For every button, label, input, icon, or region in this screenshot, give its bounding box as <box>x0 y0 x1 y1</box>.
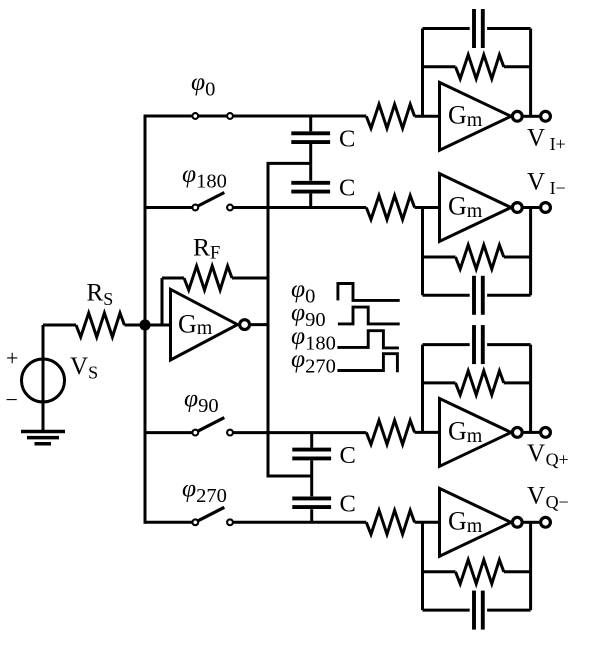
wire phi180 rail <box>145 206 366 209</box>
wire feedback res rail U5 <box>423 570 531 573</box>
wire feedback cap rail U5 <box>423 609 531 612</box>
wire feedback cap rail U4 <box>423 343 531 346</box>
bubble U5 output <box>512 517 522 527</box>
wire feedback res rail U4 <box>423 381 531 384</box>
switch phi180 <box>192 193 233 211</box>
wire central Gm output <box>251 323 268 326</box>
clock waveform phi270 <box>337 354 397 373</box>
wire feedback cap rail U2 <box>423 27 531 30</box>
wire input node to central Gm <box>145 324 171 327</box>
wire U4 output <box>524 431 540 434</box>
clock waveform phi90 <box>338 307 400 324</box>
label clock phi180 <box>291 321 336 355</box>
resistor input R5 <box>366 196 414 220</box>
label phi90 <box>184 384 219 418</box>
clock waveform phi180 <box>337 331 399 348</box>
capacitor C2 <box>291 183 330 192</box>
svg-text:C: C <box>339 125 355 152</box>
svg-text:−: − <box>6 387 18 412</box>
node input junction <box>139 319 150 330</box>
wire RF feedback left vertical <box>162 278 184 325</box>
label VQ&#8722; <box>527 483 569 513</box>
label C2 <box>339 175 355 202</box>
op-amp U2 Gm <box>440 82 512 150</box>
label C4 <box>340 491 356 518</box>
label VI+ <box>527 125 566 155</box>
wire C3 to bottom mid node <box>310 460 313 496</box>
terminal output VQ+ <box>541 428 551 438</box>
svg-text:C: C <box>340 442 356 469</box>
resistor RF <box>184 266 232 290</box>
ground <box>21 432 65 444</box>
capacitor C1 <box>291 133 330 142</box>
capacitor C4 <box>292 498 331 507</box>
label C1 <box>339 125 355 152</box>
resistor feedback R10 <box>456 560 504 584</box>
label RF <box>193 232 220 263</box>
label clock phi270 <box>291 344 336 378</box>
resistor input R7 <box>366 420 414 444</box>
label phi270 <box>182 473 227 507</box>
wire feedback left vertical U3 <box>421 208 424 296</box>
wire phi90 rail <box>145 431 366 434</box>
wire feedback left vertical U4 <box>421 345 424 433</box>
switch phi0 <box>192 113 233 119</box>
wire resistor to U2 input <box>415 115 440 118</box>
wire feedback left vertical U2 <box>421 29 424 117</box>
capacitor C3 <box>292 450 331 459</box>
terminal output VI+ <box>541 111 551 121</box>
wire top mid node stub to bus <box>267 162 311 165</box>
wire feedback right vertical U2 <box>529 29 532 117</box>
label phi180 <box>182 159 227 193</box>
label clock phi90 <box>291 297 326 331</box>
switch phi270 <box>192 507 233 525</box>
label phi0 <box>191 67 215 101</box>
capacitor feedback C3 <box>474 9 483 48</box>
resistor feedback R4 <box>456 55 504 79</box>
wire feedback cap rail U3 <box>423 294 531 297</box>
terminal output VI&#8722; <box>541 203 551 213</box>
wire RF to output bus <box>232 277 268 280</box>
op-amp U3 Gm <box>440 174 512 242</box>
wire RS to input node <box>124 324 145 327</box>
wire U5 output <box>524 521 540 524</box>
wire resistor to U5 input <box>415 521 440 524</box>
wire resistor to U4 input <box>415 431 440 434</box>
label C3 <box>340 442 356 469</box>
op-amp central Gm <box>171 289 238 360</box>
resistor input R3 <box>366 104 414 128</box>
wire phi0 rail to C1 <box>309 116 312 131</box>
wire U2 output <box>524 115 540 118</box>
voltage source VS <box>6 325 65 432</box>
label VQ+ <box>527 440 569 470</box>
wire feedback right vertical U3 <box>529 208 532 296</box>
wire resistor to U3 input <box>415 206 440 209</box>
wire C4 to phi270 rail <box>310 509 313 522</box>
wire phi90 rail to C3 <box>310 433 313 448</box>
switch phi90 <box>192 418 233 436</box>
bubble U4 output <box>512 428 522 438</box>
resistor feedback R6 <box>456 245 504 269</box>
resistor feedback R8 <box>456 371 504 395</box>
wire C1 to mid node <box>309 144 312 181</box>
label RS <box>87 280 114 309</box>
svg-text:C: C <box>339 175 355 202</box>
label VS <box>70 353 98 382</box>
wire phi0 rail <box>145 115 366 118</box>
op-amp U4 Gm <box>440 399 512 467</box>
svg-text:C: C <box>340 491 356 518</box>
wire feedback right vertical U4 <box>529 345 532 433</box>
wire U3 output <box>524 206 540 209</box>
bubble U3 output <box>512 203 522 213</box>
clock waveform phi0 <box>338 284 400 301</box>
wire C2 to phi180 rail <box>309 194 312 208</box>
op-amp U5 Gm <box>440 488 512 556</box>
bubble central Gm output <box>240 320 250 330</box>
wire bottom mid node stub to bus <box>267 475 312 478</box>
capacitor feedback C5 <box>474 325 483 364</box>
capacitor feedback C4 <box>474 276 483 315</box>
resistor input R9 <box>366 510 414 534</box>
wire phi270 rail <box>145 521 366 524</box>
bubble U2 output <box>512 111 522 121</box>
label clock phi0 <box>291 274 315 308</box>
wire feedback res rail U2 <box>423 65 531 68</box>
label VI&#8722; <box>527 169 566 199</box>
capacitor feedback C6 <box>474 591 483 630</box>
wire central output bus vertical <box>267 163 270 476</box>
svg-text:+: + <box>6 345 18 370</box>
wire feedback res rail U3 <box>423 256 531 259</box>
wire feedback right vertical U5 <box>529 522 532 610</box>
wire source to RS <box>43 324 76 327</box>
wire feedback left vertical U5 <box>421 522 424 610</box>
terminal output VQ&#8722; <box>541 517 551 527</box>
resistor RS <box>76 313 124 337</box>
wire left bus vertical <box>144 115 147 524</box>
